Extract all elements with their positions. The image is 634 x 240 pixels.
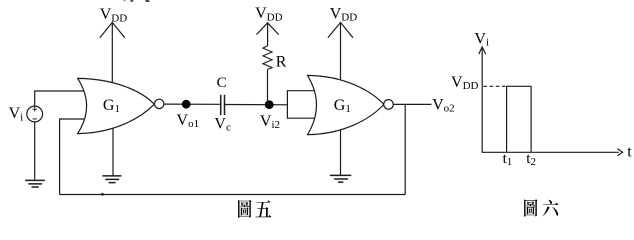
NOR gate G1 (left) output bubble <box>155 99 164 108</box>
svg-text:Vc: Vc <box>214 115 231 133</box>
bottom feedback rail <box>60 194 406 196</box>
VDD arrow gate 1 <box>100 22 125 37</box>
VDD supply wire resistor <box>267 23 269 46</box>
svg-text:Vi2: Vi2 <box>260 113 280 131</box>
NOR gate G1 (left) body <box>78 78 155 133</box>
svg-text:t2: t2 <box>526 151 536 168</box>
junction dot on rail <box>101 193 104 196</box>
svg-text:VDD: VDD <box>100 6 128 24</box>
feedback wire to G1 input B <box>60 119 87 195</box>
node Vo1 dot <box>182 100 191 109</box>
VDD arrow gate 2 <box>328 22 353 37</box>
graph dashed VDD level line <box>483 85 506 87</box>
wire capacitor to node Vi2 to gate 2 inputs <box>225 104 287 106</box>
source VS top wire to G1 input A <box>35 91 87 106</box>
caption 圖六 <box>524 199 558 217</box>
svg-text:Vi: Vi <box>9 105 24 123</box>
wire G1 output to node Vo1 and capacitor <box>164 103 220 105</box>
graph Vi axis vertical <box>481 48 483 153</box>
svg-text:Vi: Vi <box>474 31 489 49</box>
gate 2 ground pin <box>340 128 342 175</box>
cropped text remnant top <box>123 0 149 2</box>
wire resistor to node Vi2 <box>267 69 269 104</box>
source VS bottom wire <box>34 122 36 180</box>
svg-text:VDD: VDD <box>330 6 358 24</box>
graph input pulse waveform <box>507 86 531 152</box>
svg-text:R: R <box>276 53 287 70</box>
resistor R zigzag <box>263 46 272 70</box>
VDD supply wire gate 1 <box>111 23 113 82</box>
svg-text:VDD: VDD <box>255 5 283 23</box>
ground for source VS <box>25 180 45 187</box>
capacitor C plates <box>221 95 225 115</box>
node Vi2 dot <box>265 100 274 109</box>
VDD supply wire gate 2 <box>340 23 342 81</box>
caption 圖五 <box>238 200 271 218</box>
NOR gate G1 (right) body <box>308 75 384 134</box>
svg-text:t: t <box>627 144 632 161</box>
svg-text:VDD: VDD <box>451 74 479 92</box>
svg-text:C: C <box>217 75 227 91</box>
NOR gate G1 (right) output bubble <box>384 100 394 110</box>
svg-text:t1: t1 <box>503 151 513 168</box>
voltage source VS circle <box>27 106 43 122</box>
VDD arrow resistor <box>257 23 279 35</box>
graph t axis horizontal <box>482 151 619 153</box>
feedback wire from Vo2 down <box>404 104 406 194</box>
ground gate 2 <box>330 175 351 182</box>
svg-text:Vo1: Vo1 <box>177 112 200 130</box>
gate 2 input tie bracket <box>287 91 315 119</box>
svg-text:Vo2: Vo2 <box>432 96 455 114</box>
gate 1 ground pin <box>112 129 114 176</box>
graph Vi axis arrowhead <box>479 47 486 54</box>
wire G1 output to Vo2 <box>393 103 431 105</box>
graph t axis arrowhead <box>617 149 622 156</box>
ground gate 1 <box>102 176 121 183</box>
